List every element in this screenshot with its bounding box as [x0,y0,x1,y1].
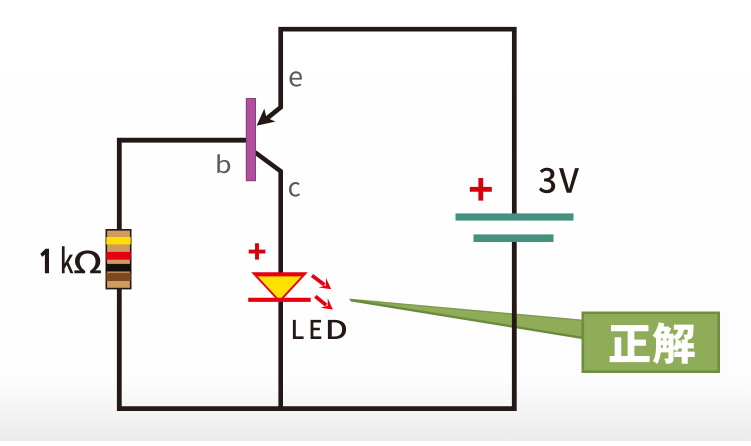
wire: base + left rail + bottom rail + right lower rail [119,140,514,408]
callout tail (正解 pointer) [350,299,583,338]
label b (base) [217,154,230,173]
label LED [293,320,346,339]
resistor R1 body [106,230,130,289]
label c (collector) [289,182,300,197]
LED light arrow 1 [312,276,325,285]
transistor emitter arrowhead [257,109,276,126]
label 正 (kanji "correct") [610,325,650,362]
LED plus sign [249,243,266,259]
callout box 正解 [583,313,719,372]
battery plus sign [470,178,492,201]
battery positive plate [456,213,574,220]
LED light arrow 2 [315,296,326,305]
resistor band gold [106,237,130,244]
resistor band red [106,252,130,260]
resistor band black [106,264,130,272]
LED D1 triangle [251,272,308,302]
wire: emitter top + top rail + right rail to battery [266,29,514,214]
transistor Q1 base bar [246,99,255,181]
resistor band brown [106,273,130,281]
label e (emitter) [290,71,302,86]
label 1kΩ [40,246,101,273]
callout tail dark bottom edge [351,300,583,338]
battery negative plate [474,234,554,242]
LED cathode bar [248,298,311,302]
label 3V [539,168,579,193]
label 解 (kanji "answer") [653,322,695,364]
wire: collector diagonal + LED branch down [255,152,281,410]
